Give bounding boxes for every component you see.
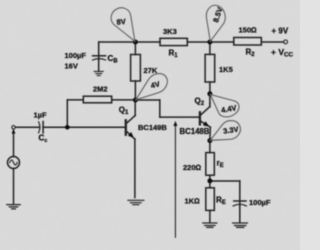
svg-text:27K: 27K <box>144 66 158 75</box>
capacitor CB lead from rail <box>98 42 100 71</box>
ground below bypass cap <box>233 223 248 227</box>
ground below CB <box>94 71 103 75</box>
wire rE to node2 <box>209 175 211 181</box>
transistor Q2 collector stroke <box>201 107 210 115</box>
input terminal <box>12 126 15 129</box>
svg-text:2M2: 2M2 <box>93 85 108 94</box>
wire 27K bottom lead to node A <box>134 81 136 100</box>
wire Q1 emitter down <box>134 139 136 198</box>
resistor 2M2 body <box>83 96 111 103</box>
node2 rE/RE junction <box>207 178 212 183</box>
wire 1K5 top lead <box>209 42 211 54</box>
resistor RE 1K body <box>206 188 215 211</box>
wire coupling vertical <box>159 100 161 117</box>
source sine wave <box>10 160 17 165</box>
capacitor Cc right plate <box>42 122 44 134</box>
resistor 27K body <box>131 55 141 82</box>
svg-text:220Ω: 220Ω <box>183 163 202 172</box>
balloon 3.3V <box>210 121 240 141</box>
ground below Q1 emitter <box>128 200 144 204</box>
svg-text:100µF: 100µF <box>249 198 271 207</box>
wire top rail right segment to +Vcc terminal <box>261 41 283 43</box>
wire bypass cap lead <box>239 181 241 222</box>
source circle <box>8 157 20 169</box>
resistor 1K5 body <box>205 54 215 82</box>
svg-text:1µF: 1µF <box>34 111 47 120</box>
svg-text:8V: 8V <box>116 17 126 27</box>
wire Q1 collector to node A <box>134 100 136 116</box>
terminal +Vcc <box>284 40 288 44</box>
wire top rail middle segment <box>187 41 234 43</box>
ground below source <box>7 205 20 209</box>
balloon 4V <box>136 74 167 100</box>
wire source to ground <box>13 169 15 204</box>
Q2 collector measure node <box>207 91 212 96</box>
svg-text:1KΩ: 1KΩ <box>185 197 201 206</box>
wire 2M2 left lead <box>67 99 83 101</box>
junction at 2M2/base line <box>65 125 70 130</box>
wire 1K5 bottom lead to Q2 collector node <box>209 82 211 104</box>
wire 2M2 right lead to node A <box>112 99 136 101</box>
wire top rail left segment <box>99 41 160 43</box>
svg-text:BC149B: BC149B <box>138 123 167 132</box>
capacitor CB plates <box>93 55 106 57</box>
wire RE to ground <box>209 210 211 222</box>
svg-text:1K5: 1K5 <box>219 65 233 74</box>
wire Cc to Q1 base <box>43 126 125 128</box>
ground below RE <box>203 223 217 227</box>
wire node A to coupling corner <box>135 99 159 101</box>
wire coupling to Q2 base <box>160 116 199 118</box>
wire node2 to bypass cap <box>210 180 240 182</box>
junction node on rail at 27K <box>133 40 138 45</box>
transistor Q2 base bar <box>199 112 201 124</box>
wire Q2 collector up <box>209 104 211 107</box>
signal arrowhead up <box>173 121 177 126</box>
Q2 emitter node <box>207 138 212 143</box>
capacitor 100uF plates <box>234 200 246 202</box>
svg-text:BC148B: BC148B <box>180 127 210 136</box>
resistor R1 3K3 <box>160 38 187 45</box>
balloon 8.5V <box>206 5 225 41</box>
wire Q2 emitter down to emitter node <box>209 127 211 152</box>
signal arrow vertical line <box>174 125 176 237</box>
wire 27K top lead <box>134 42 136 55</box>
Q1 emitter arrowhead <box>128 132 134 138</box>
svg-text:+ 9V: + 9V <box>272 27 289 36</box>
balloon 4.4V <box>210 95 239 117</box>
transistor Q2 emitter stroke <box>201 121 210 127</box>
transistor Q1 emitter stroke <box>127 132 135 139</box>
balloon 8V <box>111 8 135 42</box>
resistor rE 220 body <box>206 153 215 176</box>
wire node2 to RE <box>209 181 211 188</box>
Q2 emitter arrowhead <box>203 121 209 126</box>
wire input terminal to Cc <box>16 126 40 128</box>
svg-text:100µF: 100µF <box>65 51 87 60</box>
input arrowhead <box>12 129 16 134</box>
transistor Q1 collector stroke <box>127 115 135 123</box>
svg-text:150Ω: 150Ω <box>239 26 258 35</box>
resistor R2 150ohm <box>234 38 261 46</box>
svg-text:16V: 16V <box>65 62 78 71</box>
svg-text:3K3: 3K3 <box>163 27 177 36</box>
junction node on rail at 1K5 <box>207 40 212 45</box>
wire 2M2 down to base line <box>66 100 68 127</box>
capacitor Cc left plate curved <box>39 122 40 133</box>
node A junction <box>133 98 138 103</box>
wire source vertical upper <box>13 131 15 157</box>
transistor Q1 base bar <box>125 120 127 134</box>
